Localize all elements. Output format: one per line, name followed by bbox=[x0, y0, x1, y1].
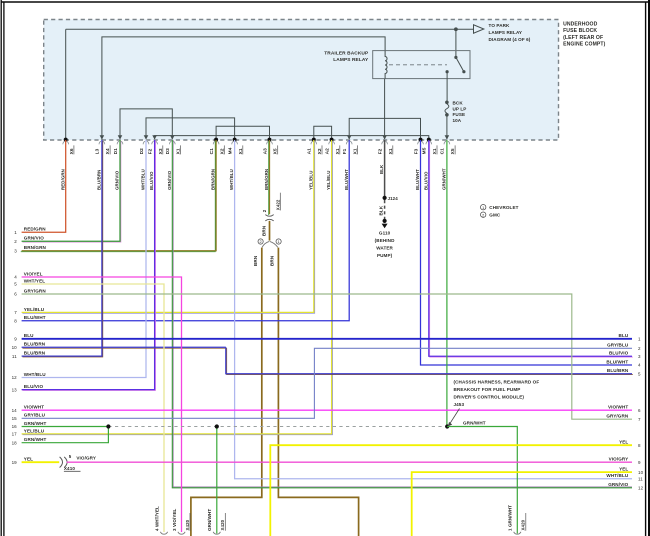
svg-text:5: 5 bbox=[14, 282, 17, 287]
svg-text:GRN/VIO: GRN/VIO bbox=[608, 482, 628, 487]
svg-text:M4: M4 bbox=[227, 147, 233, 154]
svg-text:BLU/VIO: BLU/VIO bbox=[149, 171, 154, 190]
svg-text:1: 1 bbox=[277, 240, 279, 244]
fuse block pin F1 X1 (BLU/WHT) bbox=[347, 135, 352, 139]
wire BRN below X422 bbox=[269, 221, 271, 241]
svg-text:3: 3 bbox=[638, 354, 641, 359]
svg-text:BLK: BLK bbox=[379, 205, 384, 215]
svg-text:J124: J124 bbox=[388, 196, 399, 201]
svg-text:GRN/WHT: GRN/WHT bbox=[463, 421, 486, 426]
svg-text:2: 2 bbox=[482, 213, 484, 217]
fuse block pin F3 (BLU/WHT) bbox=[419, 138, 423, 142]
splice dot chassis drop bbox=[215, 424, 219, 428]
leader line J453 bbox=[450, 409, 460, 425]
internal wire fuse to pin C1 bbox=[446, 117, 448, 140]
svg-text:WHT/BLU: WHT/BLU bbox=[606, 473, 628, 478]
svg-text:YEL: YEL bbox=[619, 440, 628, 445]
svg-text:YEL: YEL bbox=[24, 457, 33, 462]
svg-text:GRN/WHT: GRN/WHT bbox=[207, 509, 212, 531]
internal link D1-D3 bbox=[120, 109, 172, 139]
wire BLU/VIO pin F2 to stub 13 bbox=[22, 141, 155, 391]
svg-text:8: 8 bbox=[14, 318, 17, 323]
fuse block pin C1 X2 (BRN/GRN) bbox=[214, 138, 218, 142]
svg-text:L3: L3 bbox=[95, 148, 101, 154]
wire GRN/WHT pin C1 to splice J453 bbox=[446, 140, 448, 427]
svg-text:X420: X420 bbox=[185, 519, 190, 530]
svg-text:4 WHT/YEL: 4 WHT/YEL bbox=[154, 506, 159, 531]
fuse block pin F2 X3 (BLU/VIO) bbox=[152, 135, 157, 139]
bottom connector at x=517.3 (1 GRN/WHT) bbox=[514, 532, 521, 534]
svg-text:BLU/WHT: BLU/WHT bbox=[24, 315, 46, 320]
svg-text:BREAKOUT FOR FUEL PUMP: BREAKOUT FOR FUEL PUMP bbox=[454, 387, 521, 392]
wire GRY/BLU stub 15 to right stub 2 bbox=[22, 348, 632, 418]
internal wire bus to park lamps relay bbox=[66, 28, 474, 30]
svg-text:10: 10 bbox=[12, 345, 18, 350]
svg-text:BRN: BRN bbox=[270, 255, 275, 266]
svg-text:VIO/YEL: VIO/YEL bbox=[24, 271, 43, 276]
page border left inner bbox=[3, 2, 5, 536]
svg-text:BLU: BLU bbox=[619, 333, 629, 338]
svg-text:GRY/BLU: GRY/BLU bbox=[24, 413, 46, 418]
wire YEL right stub 8 to bottom bbox=[270, 445, 632, 536]
svg-text:GRY/GRN: GRY/GRN bbox=[606, 414, 629, 419]
connector X410 (in-line) bbox=[60, 457, 63, 468]
fuse block pin X6 (RED/GRN) bbox=[64, 138, 68, 142]
wire GRN/WHT drop to bottom connector X420 bbox=[216, 427, 218, 534]
svg-text:BRN/GRN: BRN/GRN bbox=[24, 245, 47, 250]
svg-text:(BEHIND: (BEHIND bbox=[375, 238, 395, 243]
wire YEL/BLU pin A1 to stub 7 bbox=[22, 141, 314, 313]
svg-text:BRN: BRN bbox=[253, 255, 258, 266]
svg-text:BLU/BRN: BLU/BRN bbox=[24, 342, 46, 347]
svg-text:GRN/VIO: GRN/VIO bbox=[24, 236, 44, 241]
svg-text:D3: D3 bbox=[165, 148, 171, 155]
svg-text:YEL: YEL bbox=[619, 467, 628, 472]
ground G110 bbox=[383, 219, 387, 223]
svg-text:UP LP: UP LP bbox=[453, 106, 467, 111]
wire BLU/WHT pin F1 to stub 8 bbox=[22, 140, 350, 321]
svg-text:UNDERHOOD: UNDERHOOD bbox=[563, 21, 598, 27]
wire GRN/WHT stub 18 riser bbox=[22, 427, 109, 443]
bottom connector at x=216.8 (GRN/WHT) bbox=[213, 532, 220, 534]
svg-text:PUMP): PUMP) bbox=[377, 253, 393, 258]
svg-text:YEL/BLU: YEL/BLU bbox=[308, 171, 313, 190]
bottom connector at x=181.5 (3 VIO/YEL) bbox=[178, 532, 185, 534]
svg-text:6: 6 bbox=[638, 408, 641, 413]
relay coil-switch dashed link bbox=[389, 64, 447, 66]
svg-text:GRY/BLU: GRY/BLU bbox=[607, 343, 629, 348]
wire VIO/YEL stub 4 to bottom connector bbox=[22, 277, 182, 532]
svg-text:X420: X420 bbox=[220, 519, 225, 530]
svg-text:5: 5 bbox=[69, 454, 72, 459]
relay coil bbox=[385, 51, 387, 79]
svg-text:A3: A3 bbox=[262, 148, 268, 155]
wire WHT/YEL stub 5 to bottom connector bbox=[22, 284, 164, 532]
relay switch contact top bbox=[454, 56, 457, 59]
wire BRN/GRN pin C1 to stub 3 bbox=[21, 141, 216, 252]
svg-text:F2: F2 bbox=[147, 148, 153, 154]
svg-text:GRN/WHT: GRN/WHT bbox=[442, 168, 447, 190]
wire BLU/BRN pin L3 bus bbox=[102, 141, 104, 348]
svg-text:1: 1 bbox=[482, 206, 484, 210]
wire BLU stub 9 to right stub 1 bbox=[22, 338, 632, 340]
svg-text:RED/GRN: RED/GRN bbox=[24, 227, 46, 232]
fuse block pin M4 X1 (WHT/BLU) bbox=[233, 138, 237, 142]
page border right outer bbox=[648, 0, 650, 536]
internal wire riser pin X6 bbox=[65, 29, 67, 139]
wire YEL right stub 10 to bottom bbox=[412, 472, 632, 536]
svg-text:10: 10 bbox=[638, 470, 644, 475]
footnote 2 GMC bbox=[481, 212, 486, 217]
wire GRN/WHT J453 to bottom connector X420 bbox=[447, 427, 517, 534]
svg-text:BRN: BRN bbox=[262, 225, 267, 236]
svg-text:VIO/WHT: VIO/WHT bbox=[608, 405, 628, 410]
svg-text:G110: G110 bbox=[379, 231, 391, 236]
svg-text:RED/GRN: RED/GRN bbox=[60, 169, 65, 190]
svg-text:BLU/VIO: BLU/VIO bbox=[423, 171, 428, 190]
svg-text:FUSE: FUSE bbox=[453, 112, 466, 117]
svg-text:17: 17 bbox=[12, 432, 18, 437]
svg-text:BLU/BRN: BLU/BRN bbox=[24, 351, 46, 356]
svg-text:A1: A1 bbox=[307, 148, 313, 155]
svg-text:BLU/VIO: BLU/VIO bbox=[609, 351, 629, 356]
svg-text:F2: F2 bbox=[377, 148, 383, 154]
svg-text:VIO/WHT: VIO/WHT bbox=[24, 405, 44, 410]
fuse block pin D1 (GRN/VIO) bbox=[118, 135, 123, 139]
svg-text:7: 7 bbox=[638, 417, 641, 422]
svg-text:J453: J453 bbox=[454, 402, 465, 407]
svg-text:BLU/WHT: BLU/WHT bbox=[415, 169, 420, 190]
splice fork of BRN wire bbox=[262, 241, 269, 247]
page border top bbox=[1, 1, 648, 3]
footnote marker 1 (Chevrolet) at splice bbox=[276, 239, 281, 244]
splice J453 bbox=[445, 424, 449, 428]
wire BLU/BRN jog to right stub 5 bbox=[227, 348, 633, 374]
svg-text:2: 2 bbox=[638, 346, 641, 351]
internal link C1-A3 bbox=[216, 126, 269, 139]
svg-text:LAMPS RELAY: LAMPS RELAY bbox=[333, 57, 369, 63]
svg-text:3 VIO/YEL: 3 VIO/YEL bbox=[172, 508, 177, 531]
svg-text:15: 15 bbox=[12, 416, 18, 421]
svg-text:1 GRN/WHT: 1 GRN/WHT bbox=[508, 505, 513, 531]
fuse block pin L3 X4 (BLU/BRN) bbox=[100, 135, 105, 139]
svg-text:YEL/BLU: YEL/BLU bbox=[24, 428, 45, 433]
fuse block pin C1 X5 (GRN/WHT) bbox=[445, 135, 450, 139]
svg-text:C1: C1 bbox=[209, 148, 215, 155]
splice J124 bbox=[383, 196, 387, 200]
svg-text:2: 2 bbox=[14, 239, 17, 244]
svg-text:BLU: BLU bbox=[24, 333, 34, 338]
svg-text:18: 18 bbox=[12, 440, 18, 445]
wire WHT/BLU pin D2 to stub 12 bbox=[22, 140, 146, 378]
relay switch blade bbox=[456, 57, 464, 71]
wire BLU/BRN stub 10 run bbox=[22, 347, 226, 349]
wire RED/GRN pin X6 to stub 1 bbox=[22, 140, 66, 232]
svg-text:16: 16 bbox=[12, 424, 18, 429]
svg-text:BLU/WHT: BLU/WHT bbox=[344, 169, 349, 190]
fuse block pin A2 X1 (YEL/BLU) bbox=[330, 138, 334, 142]
svg-text:BLU/WHT: BLU/WHT bbox=[606, 359, 628, 364]
svg-text:GRN/VIO: GRN/VIO bbox=[167, 170, 172, 190]
svg-text:D2: D2 bbox=[139, 148, 145, 155]
svg-text:LAMPS RELAY: LAMPS RELAY bbox=[489, 30, 523, 35]
svg-text:BCK: BCK bbox=[453, 101, 464, 106]
svg-text:2: 2 bbox=[259, 240, 261, 244]
svg-text:F3: F3 bbox=[413, 148, 419, 154]
wire BRN/GRN pin A3 to connector X422 bbox=[268, 141, 270, 215]
svg-text:A2: A2 bbox=[324, 148, 330, 155]
fuse block pin A3 X5 (BRN/GRN) bbox=[268, 138, 272, 142]
svg-text:11: 11 bbox=[638, 476, 643, 481]
svg-text:9: 9 bbox=[638, 460, 641, 465]
svg-text:VIO/GRY: VIO/GRY bbox=[609, 457, 629, 462]
svg-text:GRN/WHT: GRN/WHT bbox=[24, 421, 47, 426]
internal link D2-M4 bbox=[146, 118, 235, 139]
svg-text:FUSE BLOCK: FUSE BLOCK bbox=[563, 28, 597, 34]
svg-text:GRY/GRN: GRY/GRN bbox=[24, 288, 47, 293]
svg-text:X422: X422 bbox=[275, 199, 280, 210]
svg-text:3: 3 bbox=[14, 249, 17, 254]
wire BLU/BRN stub 11 run bbox=[22, 348, 102, 357]
chassis harness dashed run bbox=[108, 426, 447, 428]
fuse block pin A1 X2 (YEL/BLU) bbox=[312, 138, 316, 142]
svg-text:BLU/VIO: BLU/VIO bbox=[24, 384, 44, 389]
svg-text:11: 11 bbox=[12, 354, 17, 359]
footnote marker 2 (GMC) at splice bbox=[258, 239, 263, 244]
svg-text:10A: 10A bbox=[453, 118, 462, 123]
svg-text:C1: C1 bbox=[440, 148, 446, 155]
svg-text:VIO/GRY: VIO/GRY bbox=[76, 456, 96, 461]
relay switch contact NO bbox=[462, 70, 465, 73]
svg-text:5: 5 bbox=[638, 371, 641, 376]
fuse block pin D3 X1 (GRN/VIO) bbox=[170, 135, 175, 139]
fuse block pin M5 X1 (BLU/VIO) bbox=[427, 138, 431, 142]
svg-text:12: 12 bbox=[12, 375, 18, 380]
svg-text:1: 1 bbox=[638, 337, 641, 342]
wire BRN left branch bbox=[191, 248, 262, 536]
svg-text:1: 1 bbox=[14, 230, 17, 235]
svg-text:WHT/BLU: WHT/BLU bbox=[229, 169, 234, 190]
internal link F2-M5 bbox=[155, 136, 429, 139]
svg-text:9: 9 bbox=[14, 337, 17, 342]
page border right inner bbox=[645, 2, 647, 536]
fuse BCK UP LP 10A bbox=[445, 101, 449, 105]
wire YEL/BLU pin A2 to stub 17 bbox=[22, 141, 332, 435]
wire VIO/WHT stub 14 to right stub 6 bbox=[22, 409, 632, 411]
wire BLK pin F2 to splice J124 bbox=[384, 140, 386, 198]
page border left outer bbox=[0, 0, 2, 536]
svg-text:TRAILER BACKUP: TRAILER BACKUP bbox=[324, 50, 369, 56]
svg-text:ENGINE COMPT): ENGINE COMPT) bbox=[563, 42, 606, 48]
wire BLU/VIO pin M5 to right stub 3 bbox=[430, 141, 633, 357]
svg-text:BLK: BLK bbox=[379, 164, 384, 174]
svg-text:14: 14 bbox=[12, 408, 18, 413]
svg-text:BLU/BRN: BLU/BRN bbox=[607, 368, 629, 373]
svg-text:WHT/BLU: WHT/BLU bbox=[24, 372, 46, 377]
svg-text:WATER: WATER bbox=[376, 246, 393, 251]
relay switch common bbox=[446, 70, 449, 73]
svg-text:WHT/YEL: WHT/YEL bbox=[24, 278, 45, 283]
internal wire coil feed from pin L3 bbox=[102, 37, 385, 140]
footnote 1 CHEVROLET bbox=[481, 205, 486, 210]
svg-text:D1: D1 bbox=[113, 148, 119, 155]
svg-text:TO PARK: TO PARK bbox=[489, 23, 511, 28]
internal wire coil return to pin F2 bbox=[384, 79, 386, 139]
wire GRN/VIO pin D1 to stub 2 bbox=[22, 141, 120, 242]
svg-text:YEL/BLU: YEL/BLU bbox=[24, 307, 45, 312]
svg-text:8: 8 bbox=[638, 443, 641, 448]
svg-text:7: 7 bbox=[14, 310, 17, 315]
underhood fuse block (dashed box) bbox=[44, 20, 559, 141]
wire VIO/GRY X410 to right stub 9 bbox=[67, 461, 632, 463]
wire GRN/VIO pin D3 to right stub 12 bbox=[173, 140, 632, 487]
junction dot relay switch feed bbox=[454, 27, 458, 31]
fuse block pin F2 X1 (BLK) bbox=[382, 135, 387, 139]
internal wire riser relay switch bbox=[455, 29, 457, 57]
svg-text:(CHASSIS HARNESS, REARWARD OF: (CHASSIS HARNESS, REARWARD OF bbox=[454, 380, 540, 385]
svg-text:(LEFT REAR OF: (LEFT REAR OF bbox=[563, 35, 603, 41]
internal link F1-F3 bbox=[349, 118, 420, 139]
svg-text:DIAGRAM (4 OF 6): DIAGRAM (4 OF 6) bbox=[489, 37, 531, 42]
wire YEL stub 19 bbox=[22, 461, 60, 463]
svg-text:DRIVER'S CONTROL MODULE): DRIVER'S CONTROL MODULE) bbox=[454, 395, 525, 400]
bottom connector at x=164.0 (4 WHT/YEL) bbox=[160, 532, 167, 534]
svg-text:4: 4 bbox=[14, 275, 17, 280]
svg-text:GRN/VIO: GRN/VIO bbox=[115, 170, 120, 190]
svg-text:GMC: GMC bbox=[489, 213, 501, 218]
connector X422 (in-line) bbox=[265, 215, 273, 217]
internal link A1-A2 bbox=[314, 126, 332, 139]
wire GRY/GRN stub 6 to right stub 7 bbox=[22, 294, 632, 419]
svg-text:X420: X420 bbox=[521, 519, 526, 530]
relay K1 trailer backup lamps relay box bbox=[373, 51, 470, 79]
wire BRN right branch bbox=[278, 248, 358, 536]
wire BLU/WHT pin F3 to right stub 4 bbox=[421, 140, 633, 365]
svg-text:BLU/BRN: BLU/BRN bbox=[97, 170, 102, 190]
splice dot stub 16/18 bbox=[106, 424, 110, 428]
svg-text:WHT/BLU: WHT/BLU bbox=[141, 169, 146, 190]
svg-text:13: 13 bbox=[12, 387, 18, 392]
svg-text:CHEVROLET: CHEVROLET bbox=[489, 205, 518, 210]
fuse block pin D2 (WHT/BLU) bbox=[144, 135, 149, 139]
internal wire switch to fuse bbox=[446, 72, 448, 101]
svg-text:GRN/WHT: GRN/WHT bbox=[24, 437, 47, 442]
svg-text:12: 12 bbox=[638, 486, 644, 491]
wire GRN/WHT stub 16 bbox=[22, 426, 109, 428]
svg-text:19: 19 bbox=[12, 460, 18, 465]
svg-text:6: 6 bbox=[14, 292, 17, 297]
svg-text:M5: M5 bbox=[422, 147, 428, 154]
svg-text:X410: X410 bbox=[64, 466, 75, 471]
off-page arrow to park lamps relay bbox=[474, 25, 484, 33]
svg-text:4: 4 bbox=[638, 363, 641, 368]
wire WHT/BLU pin M4 to right stub 11 bbox=[235, 140, 632, 479]
wire BLK J124 to ground (dashed) bbox=[384, 200, 386, 219]
svg-text:F1: F1 bbox=[342, 148, 348, 154]
svg-text:YEL/BLU: YEL/BLU bbox=[326, 171, 331, 190]
